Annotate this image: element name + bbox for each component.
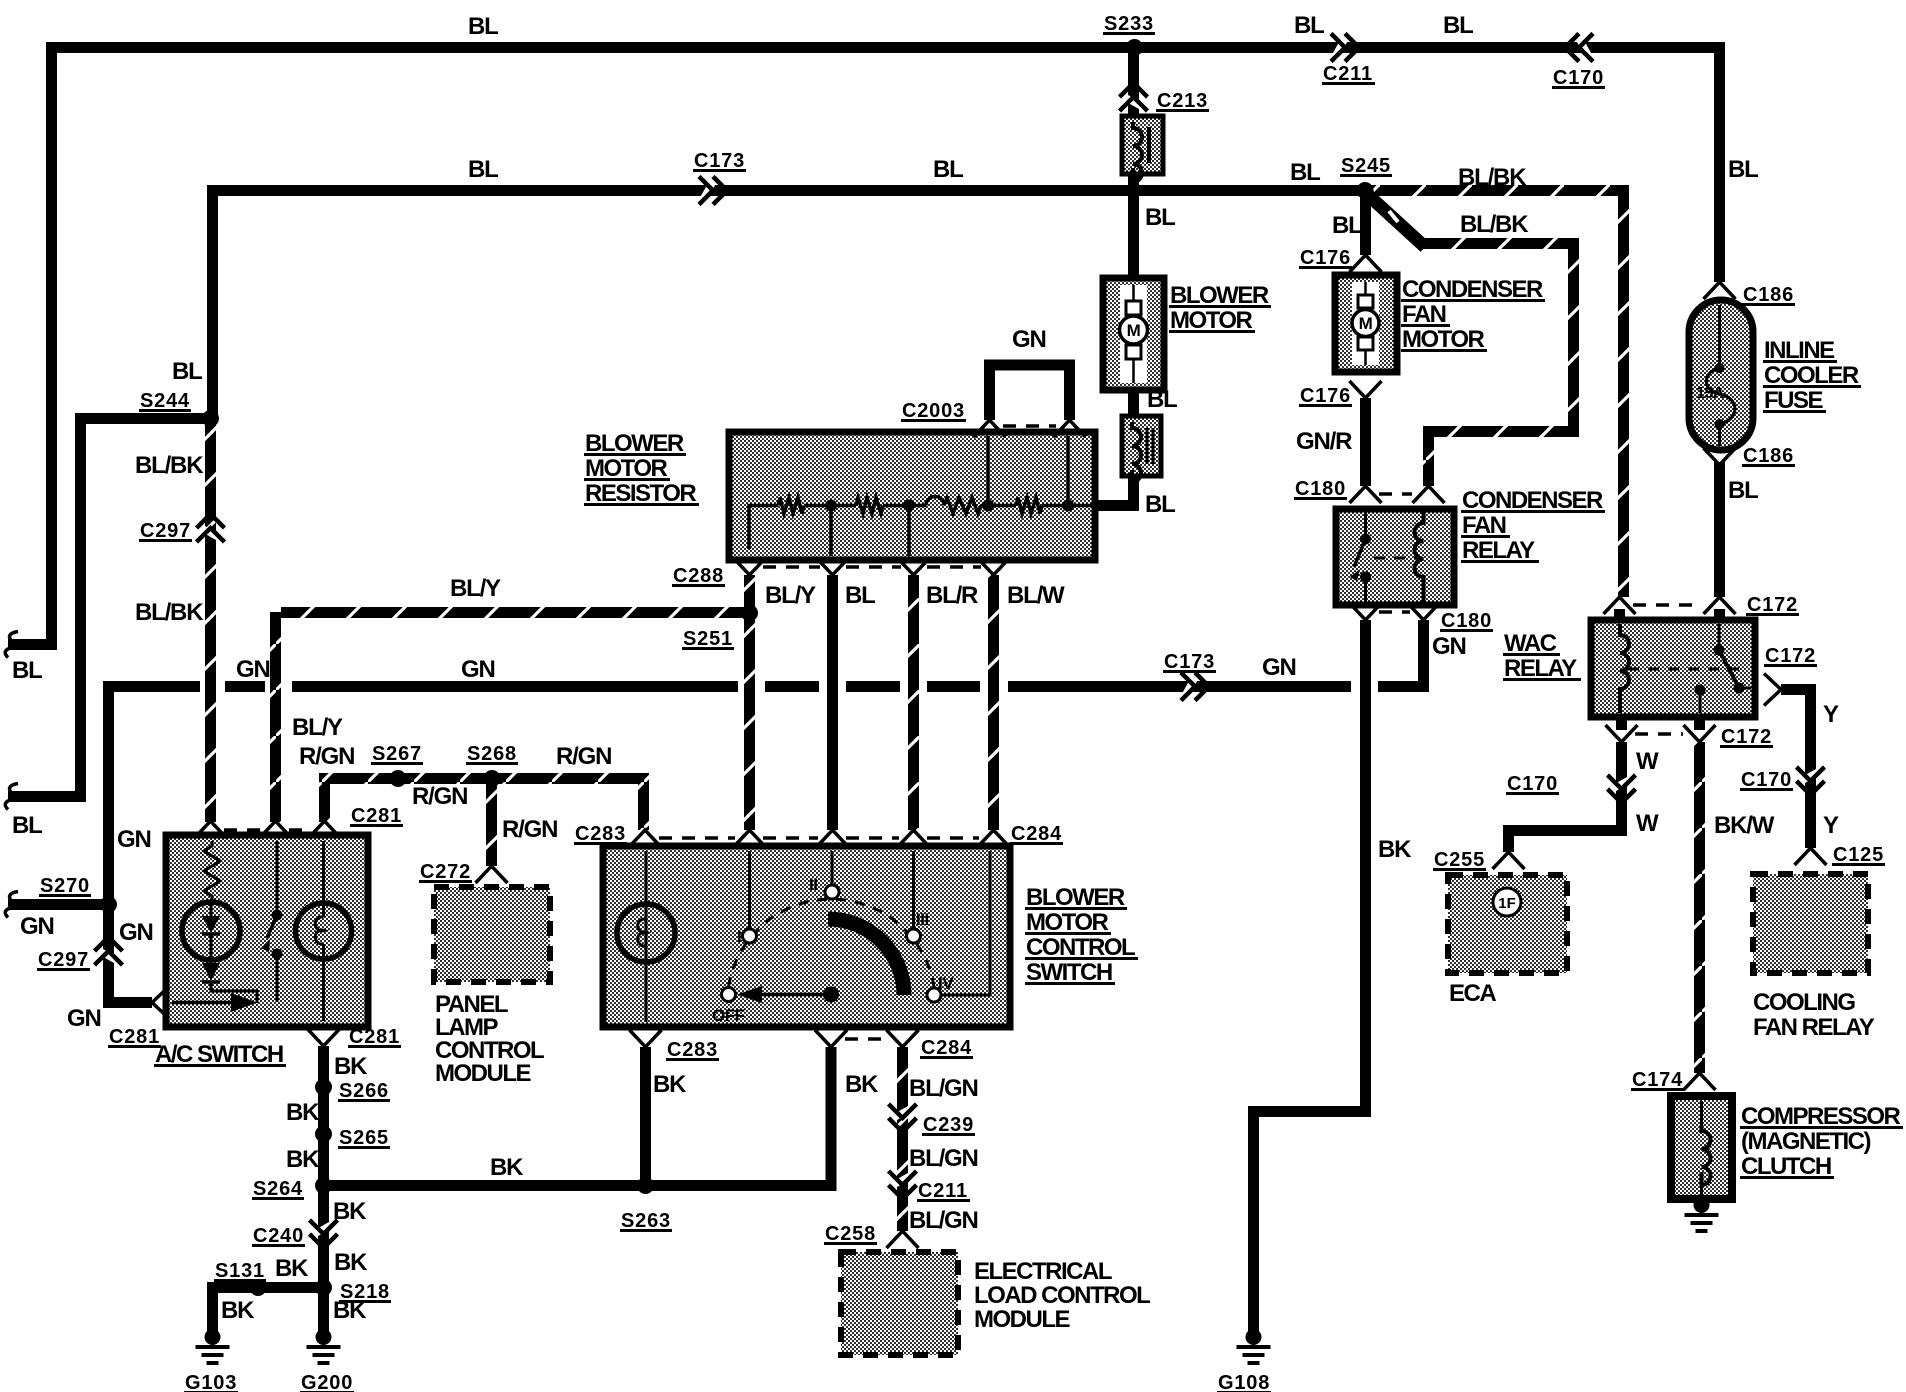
wire: blower motor vertical BL (S233 to motor to resistor): [1128, 53, 1139, 280]
svg-text:CONTROL: CONTROL: [1026, 934, 1135, 961]
svg-text:C186: C186: [1743, 445, 1794, 467]
svg-text:BL/GN: BL/GN: [909, 1075, 978, 1102]
svg-text:C186: C186: [1743, 284, 1794, 306]
svg-text:BK: BK: [333, 1198, 367, 1225]
ECA module box: [1448, 875, 1567, 973]
cooling fan relay box: [1753, 874, 1868, 973]
svg-text:BL: BL: [845, 582, 875, 609]
svg-text:BL/BK: BL/BK: [135, 599, 204, 626]
svg-text:GN: GN: [67, 1005, 101, 1032]
svg-text:BK: BK: [845, 1071, 879, 1098]
connector C170 on top wire: [1579, 39, 1589, 57]
svg-text:Y: Y: [1823, 701, 1839, 728]
svg-text:R/GN: R/GN: [502, 816, 557, 843]
svg-text:BL: BL: [1145, 491, 1175, 518]
svg-text:OFF: OFF: [712, 1006, 745, 1025]
svg-text:RELAY: RELAY: [1504, 655, 1577, 682]
svg-text:BL: BL: [1332, 212, 1362, 239]
svg-text:WAC: WAC: [1504, 630, 1557, 657]
svg-text:RESISTOR: RESISTOR: [585, 480, 696, 507]
connector C180 top forks: [1350, 486, 1382, 503]
OFF arrow: [746, 993, 831, 997]
A/C switch center contact: [276, 841, 279, 911]
svg-text:BL: BL: [1728, 477, 1758, 504]
svg-text:BK: BK: [653, 1071, 687, 1098]
wire: BL/BK outer hatched S245 to WAC relay: [1371, 185, 1629, 196]
svg-text:BL: BL: [12, 657, 42, 684]
wire: BK S264 to blower switch middle pin: [324, 1047, 832, 1186]
svg-text:S266: S266: [339, 1080, 389, 1102]
svg-text:BL/Y: BL/Y: [450, 575, 501, 602]
svg-text:FUSE: FUSE: [1764, 387, 1824, 414]
connector C172 right fork: [1764, 674, 1781, 706]
node S251: [741, 605, 758, 622]
blower motor control switch box: [603, 846, 1010, 1027]
svg-text:BL: BL: [1290, 159, 1320, 186]
svg-text:GN: GN: [119, 919, 153, 946]
svg-text:GN: GN: [1262, 654, 1296, 681]
svg-text:MOTOR: MOTOR: [1170, 307, 1253, 334]
wire: BL/BK inner hatched S245 to condenser fan relay: [1367, 194, 1425, 247]
svg-text:BL: BL: [468, 13, 498, 40]
svg-text:M: M: [1359, 314, 1373, 333]
svg-text:A/C SWITCH: A/C SWITCH: [155, 1041, 283, 1068]
A/C switch bottom bus with arrow: [172, 1001, 232, 1005]
wire: W from WAC relay to ECA C255: [1509, 742, 1622, 852]
off-page break GN left: [5, 892, 18, 918]
switch position lines: [748, 851, 751, 929]
wire: BK condenser fan relay to G108 ground: [1254, 620, 1366, 1332]
wire: BL below S245 to condenser fan motor: [1360, 196, 1371, 255]
connector C186 top fork: [1704, 282, 1736, 299]
svg-text:BK: BK: [333, 1297, 367, 1324]
svg-text:BK/W: BK/W: [1714, 812, 1775, 839]
wire: BL/Y hatched resistor pin through S251: [744, 575, 755, 830]
connector C176 bottom fork: [1350, 381, 1382, 398]
svg-text:G103: G103: [185, 1372, 237, 1392]
wire: BL/W hatched resistor pin: [988, 575, 999, 830]
svg-text:C281: C281: [109, 1026, 160, 1048]
A/C switch LED circle: [182, 902, 240, 960]
WAC relay box: [1591, 620, 1755, 717]
connector C172 top forks: [1604, 597, 1636, 614]
svg-text:BK: BK: [286, 1099, 320, 1126]
off-page break BL upper-left: [5, 632, 18, 658]
svg-text:C170: C170: [1507, 773, 1558, 795]
svg-text:COMPRESSOR: COMPRESSOR: [1741, 1103, 1901, 1130]
wire: left vertical BL drop from top feed: [46, 42, 57, 645]
wire: R/GN leg to A/C switch: [319, 778, 330, 822]
node S218: [315, 1279, 332, 1296]
connector C239 on BL/GN: [894, 1108, 912, 1118]
svg-text:C211: C211: [1323, 63, 1373, 85]
connector C172 bottom forks: [1606, 725, 1638, 742]
svg-text:BL/GN: BL/GN: [909, 1207, 978, 1234]
wire: far-left vertical BL #2: [8, 413, 81, 797]
resistor R segment 2: [856, 498, 883, 514]
wire: BK C283 pin down to S263: [640, 1047, 651, 1186]
svg-text:C173: C173: [1164, 651, 1215, 673]
svg-text:R/GN: R/GN: [299, 743, 354, 770]
svg-text:C172: C172: [1747, 594, 1798, 616]
svg-text:BK: BK: [286, 1146, 320, 1173]
connector C283 top fork (switch): [629, 830, 661, 847]
svg-text:C281: C281: [351, 805, 402, 827]
svg-text:GN: GN: [236, 656, 270, 683]
connector C255 fork: [1493, 852, 1525, 869]
svg-text:BL: BL: [1294, 12, 1324, 39]
connector C284 bottom forks: [815, 1030, 847, 1047]
node S131: [250, 1279, 267, 1296]
svg-text:C284: C284: [921, 1037, 972, 1059]
svg-text:ECA: ECA: [1449, 980, 1496, 1007]
connector C174 fork: [1684, 1073, 1716, 1090]
A/C switch box: [166, 835, 368, 1027]
svg-text:C281: C281: [349, 1026, 400, 1048]
svg-text:BL/GN: BL/GN: [909, 1145, 978, 1172]
svg-text:C211: C211: [918, 1180, 968, 1202]
svg-text:S263: S263: [621, 1210, 671, 1232]
svg-text:C239: C239: [923, 1114, 974, 1136]
svg-text:GN: GN: [20, 913, 54, 940]
connector C284 top forks (switch): [734, 830, 766, 847]
blower motor box: [1103, 278, 1164, 390]
svg-text:MOTOR: MOTOR: [585, 455, 668, 482]
svg-text:C125: C125: [1833, 844, 1884, 866]
svg-text:MOTOR: MOTOR: [1402, 326, 1485, 353]
connector C173 on second BL wire: [703, 182, 713, 200]
resistor R segment 1: [778, 498, 804, 514]
node S266: [315, 1079, 332, 1096]
svg-text:LOAD CONTROL: LOAD CONTROL: [974, 1282, 1150, 1309]
svg-text:MODULE: MODULE: [435, 1060, 531, 1087]
compressor magnetic clutch box: [1671, 1096, 1732, 1199]
svg-text:BL: BL: [1147, 386, 1177, 413]
svg-text:C297: C297: [140, 520, 191, 542]
connector C211 on top wire: [1335, 39, 1345, 57]
connector C240 on BK: [315, 1224, 333, 1234]
svg-text:S233: S233: [1104, 13, 1154, 35]
wire: GN down from S270 to A/C switch: [109, 905, 153, 1003]
svg-text:BL: BL: [1145, 204, 1175, 231]
svg-text:COOLER: COOLER: [1764, 362, 1859, 389]
panel lamp control module box: [434, 887, 550, 982]
svg-text:INLINE: INLINE: [1764, 337, 1835, 364]
wire: Y from WAC relay to C125: [1781, 690, 1811, 849]
svg-text:BK: BK: [221, 1297, 255, 1324]
svg-text:FAN: FAN: [1402, 301, 1446, 328]
svg-text:GN: GN: [461, 656, 495, 683]
svg-text:C255: C255: [1434, 849, 1485, 871]
node S233: [1126, 39, 1143, 56]
wire: GN loop above resistor (C2003): [990, 365, 1070, 420]
wire: R/GN hatched horizontal: [319, 773, 649, 784]
svg-text:BL/Y: BL/Y: [292, 714, 343, 741]
svg-text:C174: C174: [1632, 1069, 1683, 1091]
relay switch contacts: [1364, 512, 1367, 534]
svg-text:FAN RELAY: FAN RELAY: [1753, 1014, 1875, 1041]
connector C176 top fork: [1350, 255, 1382, 272]
connector C170 on Y wire: [1802, 771, 1820, 781]
node S270: [100, 896, 117, 913]
wire: BL/BK hatched S244 down to A/C switch: [205, 424, 216, 822]
svg-text:S131: S131: [215, 1260, 265, 1282]
wire: top BL feed: [46, 42, 1725, 53]
svg-text:C172: C172: [1721, 726, 1772, 748]
connector C211 on BL/GN: [894, 1175, 912, 1185]
svg-text:C297: C297: [38, 949, 89, 971]
svg-text:C2003: C2003: [902, 400, 965, 422]
svg-text:C272: C272: [420, 861, 471, 883]
wire: BL/GN hatched below blower switch to C258: [897, 1047, 908, 1231]
svg-text:R/GN: R/GN: [556, 743, 611, 770]
svg-text:C176: C176: [1300, 247, 1351, 269]
connector C297 on GN: [100, 951, 118, 961]
svg-text:C283: C283: [667, 1039, 718, 1061]
wire: R/GN leg to C283 blower switch: [638, 778, 649, 830]
svg-text:C170: C170: [1553, 67, 1604, 89]
connector C283 bottom fork: [630, 1030, 662, 1047]
svg-text:IV: IV: [938, 974, 954, 993]
connector C180 bottom forks: [1350, 603, 1382, 620]
A/C switch bulb: [296, 903, 352, 959]
svg-text:M: M: [1127, 321, 1141, 340]
wire: GN right-angle to condenser fan relay C180: [1378, 620, 1424, 687]
svg-text:W: W: [1636, 748, 1659, 775]
svg-text:BK: BK: [1378, 836, 1412, 863]
compressor ground: [1694, 1197, 1710, 1213]
svg-text:GN: GN: [1012, 326, 1046, 353]
svg-text:GN/R: GN/R: [1296, 428, 1352, 455]
connector C186 bottom fork: [1704, 448, 1736, 465]
connector C272 fork: [476, 866, 508, 883]
svg-text:BL: BL: [172, 358, 202, 385]
node S263: [637, 1177, 654, 1194]
svg-text:SWITCH: SWITCH: [1026, 959, 1112, 986]
wire: R/GN leg to C272 panel lamp module: [486, 778, 497, 866]
connector C2003 forks: [974, 420, 1006, 437]
wire: BL resistor pin 2 (solid): [827, 575, 838, 830]
svg-text:BL: BL: [933, 156, 963, 183]
A/C switch diode: [202, 963, 220, 981]
off-page break BL lower-left: [5, 784, 18, 810]
connector C281 left fork (GN): [152, 987, 169, 1019]
svg-text:BL/R: BL/R: [926, 582, 978, 609]
svg-text:C283: C283: [575, 823, 626, 845]
svg-text:RELAY: RELAY: [1462, 537, 1535, 564]
A/C switch internal resistor: [204, 841, 220, 902]
resistor internal taps: [829, 505, 833, 556]
svg-text:C180: C180: [1295, 478, 1346, 500]
connector C170 on W wire: [1613, 779, 1631, 789]
svg-text:Y: Y: [1823, 812, 1839, 839]
ground G108: [1246, 1329, 1262, 1345]
svg-text:CONDENSER: CONDENSER: [1402, 276, 1543, 303]
svg-text:S267: S267: [372, 743, 422, 765]
svg-text:G200: G200: [301, 1372, 353, 1392]
svg-text:C213: C213: [1157, 90, 1208, 112]
node S267: [390, 770, 407, 787]
svg-text:BL/BK: BL/BK: [1458, 164, 1527, 191]
svg-text:CLUTCH: CLUTCH: [1741, 1153, 1831, 1180]
svg-text:C288: C288: [673, 565, 724, 587]
svg-text:BL: BL: [1728, 156, 1758, 183]
svg-text:GN: GN: [1432, 633, 1466, 660]
svg-text:BK: BK: [334, 1249, 368, 1276]
svg-text:C176: C176: [1300, 385, 1351, 407]
svg-text:MOTOR: MOTOR: [1026, 909, 1109, 936]
svg-text:S251: S251: [683, 628, 733, 650]
dashed selector arc: [729, 899, 935, 987]
svg-text:S270: S270: [40, 875, 90, 897]
wire: GN/R condenser fan motor to relay: [1360, 398, 1371, 486]
wire: WAC pin stubs: [1614, 609, 1625, 620]
wire: BK below A/C switch to G200: [318, 1046, 329, 1332]
svg-text:BK: BK: [490, 1154, 524, 1181]
svg-text:I: I: [737, 927, 741, 946]
ground G200: [316, 1329, 332, 1345]
svg-text:C170: C170: [1741, 769, 1792, 791]
condenser fan relay box: [1336, 509, 1454, 605]
wire: BK S218 to S131 to G103: [213, 1282, 324, 1293]
wire: BL/R hatched resistor pin: [908, 575, 919, 830]
svg-text:III: III: [916, 910, 929, 929]
svg-text:BL/W: BL/W: [1007, 582, 1065, 609]
svg-text:G108: G108: [1218, 1372, 1270, 1392]
connector C281 bottom fork: [308, 1029, 340, 1046]
svg-text:C172: C172: [1765, 645, 1816, 667]
wire: BL fuse to WAC relay: [1714, 462, 1725, 597]
resistor R segment 4: [1016, 498, 1042, 514]
svg-text:BL: BL: [12, 812, 42, 839]
connector C125 fork: [1795, 848, 1827, 865]
switch bulb: [645, 851, 648, 1022]
svg-text:C284: C284: [1011, 823, 1062, 845]
svg-text:S244: S244: [140, 390, 190, 412]
WAC relay coil: [1620, 624, 1629, 713]
svg-text:15A: 15A: [1696, 385, 1725, 402]
thermal limiter (top inline device): [1122, 116, 1163, 174]
blower motor resistor box C2003: [729, 432, 1095, 560]
electrical load control module box: [841, 1252, 958, 1355]
ground G103: [205, 1329, 221, 1345]
relay coil: [1415, 512, 1424, 602]
svg-text:S264: S264: [253, 1178, 303, 1200]
node S268: [484, 770, 501, 787]
svg-text:CONDENSER: CONDENSER: [1462, 487, 1603, 514]
svg-text:S265: S265: [339, 1127, 389, 1149]
wire: GN trunk with crossover gaps: [103, 681, 200, 692]
svg-text:BLOWER: BLOWER: [1170, 282, 1269, 309]
svg-text:BL: BL: [1443, 12, 1473, 39]
svg-text:C180: C180: [1441, 610, 1492, 632]
resistor element wire: [749, 506, 778, 550]
svg-text:S245: S245: [1341, 155, 1391, 177]
connector C258 fork: [887, 1231, 919, 1248]
svg-text:R/GN: R/GN: [412, 783, 467, 810]
svg-text:MODULE: MODULE: [974, 1306, 1070, 1333]
wire: S270 off-page GN stub: [8, 899, 108, 910]
connector C297 on BL/BK: [202, 528, 220, 538]
thermal limiter (lower inline device): [1122, 416, 1161, 476]
svg-text:GN: GN: [117, 826, 151, 853]
switch contacts: [722, 988, 736, 1002]
svg-text:II: II: [809, 875, 817, 894]
connector C288 forks: [734, 558, 766, 575]
svg-text:C173: C173: [694, 150, 745, 172]
wire: BL off-page stub upper-left: [8, 639, 57, 650]
connector C173 on GN trunk: [1185, 678, 1195, 696]
svg-text:ELECTRICAL: ELECTRICAL: [974, 1258, 1112, 1285]
inline cooler fuse capsule C186: [1689, 300, 1753, 450]
svg-text:BL/BK: BL/BK: [135, 452, 204, 479]
connector C213: [1125, 97, 1143, 107]
motor M circle: [1352, 310, 1379, 337]
svg-text:S268: S268: [467, 743, 517, 765]
svg-text:COOLING: COOLING: [1753, 989, 1855, 1016]
svg-text:C258: C258: [825, 1223, 876, 1245]
svg-text:BLOWER: BLOWER: [1026, 884, 1125, 911]
node S264: [315, 1177, 332, 1194]
svg-text:BK: BK: [275, 1255, 309, 1282]
wire: second BL feed (C173 run): [207, 185, 218, 418]
svg-text:W: W: [1636, 810, 1659, 837]
thick wiper arc: [828, 919, 904, 995]
svg-text:BK: BK: [334, 1053, 368, 1080]
wire: S244 horizontal link: [75, 413, 215, 424]
svg-text:(MAGNETIC): (MAGNETIC): [1741, 1128, 1870, 1155]
connector C281 top forks (A/C switch): [195, 821, 227, 838]
svg-text:C240: C240: [253, 1225, 304, 1247]
condenser fan motor box: [1335, 275, 1397, 372]
svg-text:BL: BL: [468, 156, 498, 183]
crossover hump: [926, 497, 944, 506]
wire: BK/W hatched WAC relay to compressor clutch C174: [1694, 742, 1705, 1073]
svg-text:BL/Y: BL/Y: [765, 582, 816, 609]
motor M circle: [1120, 316, 1148, 344]
svg-text:BLOWER: BLOWER: [585, 430, 684, 457]
node S244: [202, 410, 219, 427]
resistor R segment 3: [944, 498, 981, 514]
node S265: [315, 1126, 332, 1143]
svg-text:1F: 1F: [1498, 895, 1516, 912]
wire: BL/Y hatched horizontal + leg to A/C switch: [281, 607, 750, 618]
svg-text:FAN: FAN: [1462, 512, 1506, 539]
WAC relay switch: [1718, 624, 1721, 646]
svg-text:BL/BK: BL/BK: [1460, 211, 1529, 238]
wire: GN trunk left leg down to S270: [103, 681, 114, 905]
node S245: [1357, 182, 1374, 199]
wire: right vertical BL to inline cooler fuse: [1714, 42, 1725, 282]
